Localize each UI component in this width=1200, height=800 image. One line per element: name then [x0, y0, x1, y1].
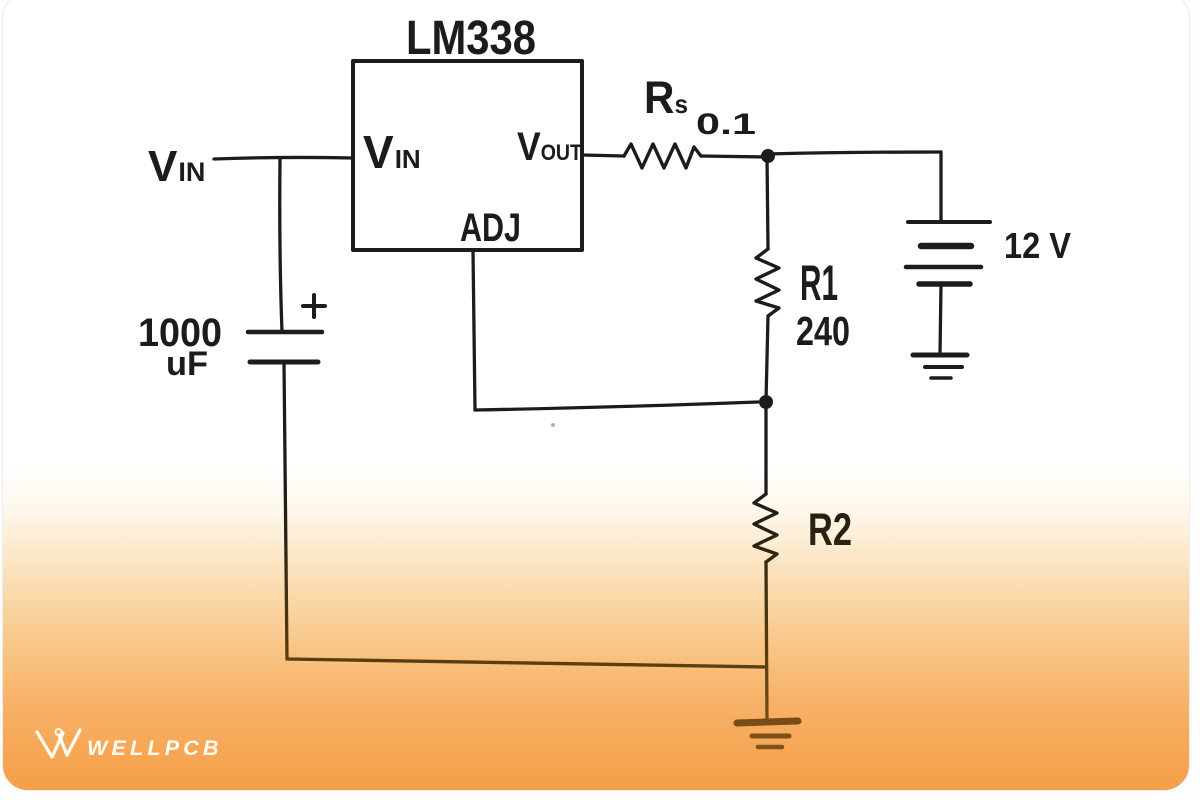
node B junction dot [759, 395, 773, 409]
svg-text:ADJ: ADJ [460, 206, 521, 250]
ground battery [913, 355, 967, 378]
wire VOUT to Rs [582, 155, 624, 156]
wire node B down to R2 [764, 402, 767, 494]
svg-text:0.1: 0.1 [696, 108, 756, 141]
battery BT1 12V plates [906, 222, 990, 284]
wire cap bottom to bottom rail [284, 362, 287, 659]
wire R1 to node B [766, 316, 768, 401]
op-amp U1 regulator LM338 box [353, 61, 582, 250]
resistor R1 [756, 249, 779, 316]
ground main [737, 721, 798, 747]
wire node A down to R1 [767, 156, 768, 249]
node A junction dot [761, 149, 775, 163]
resistor R2 [754, 494, 777, 562]
svg-text:240: 240 [796, 308, 850, 354]
WELLPCB logo [37, 729, 223, 760]
wire bottom rail horizontal [287, 659, 766, 667]
svg-text:uF: uF [166, 345, 208, 383]
speck [551, 423, 555, 427]
svg-text:WELLPCB: WELLPCB [87, 736, 223, 760]
capacitor plus sign [303, 295, 325, 317]
wire battery bottom drop [940, 284, 941, 355]
wire node A to battery drop [767, 152, 941, 154]
wire VIN label to box [214, 157, 353, 159]
wire ADJ vertical [473, 250, 475, 410]
svg-text:VIN: VIN [148, 142, 205, 191]
wire Rs to node A [701, 156, 767, 157]
wire R2 through rail to ground [766, 562, 767, 722]
svg-text:VIN: VIN [363, 126, 421, 178]
svg-text:R2: R2 [808, 504, 852, 555]
capacitor C1 plates [248, 332, 322, 362]
wire ADJ horizontal to node B [475, 402, 758, 410]
svg-text:VOUT: VOUT [517, 125, 582, 169]
wire battery top drop [939, 152, 942, 222]
wire cap tap vertical [280, 159, 282, 332]
resistor Rs [624, 144, 701, 168]
svg-text:R1: R1 [800, 255, 838, 311]
svg-text:LM338: LM338 [406, 12, 536, 65]
svg-text:12 V: 12 V [1004, 225, 1071, 266]
svg-text:Rs: Rs [644, 72, 688, 123]
